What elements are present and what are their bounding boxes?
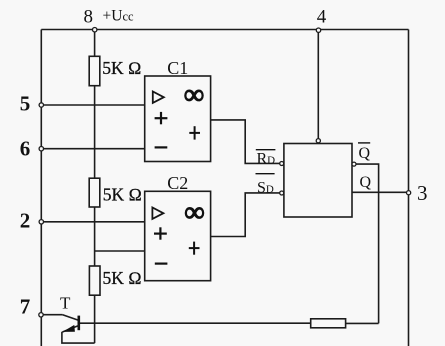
inversion bubble Rd input (280, 162, 284, 166)
node pin 8 terminal (93, 28, 97, 32)
wire R4 to Qbar vertical (346, 322, 379, 324)
svg-text:5K Ω: 5K Ω (103, 268, 142, 288)
svg-text:2: 2 (20, 208, 31, 232)
resistor R4 body (311, 319, 346, 328)
svg-text:+Ucc: +Ucc (103, 8, 134, 25)
C2 triangle symbol (152, 208, 163, 219)
svg-text:8: 8 (84, 6, 94, 27)
svg-text:Q: Q (360, 174, 372, 191)
inversion bubble on flip-flop top (316, 139, 320, 143)
op-amp comparator C1 box (145, 76, 211, 162)
C2 inner plus sign (189, 242, 200, 255)
node pin 5 terminal (39, 103, 43, 107)
C1 inner plus sign (189, 126, 200, 139)
flip-flop U1 box (284, 144, 352, 218)
output Qbar bubble (352, 162, 356, 166)
svg-text:5: 5 (20, 91, 31, 115)
wire Qbar to feedback (356, 164, 379, 323)
C2 minus input sign (155, 263, 168, 265)
svg-text:3: 3 (417, 181, 428, 205)
svg-text:7: 7 (20, 295, 31, 319)
C2 plus input sign (154, 227, 167, 239)
svg-text:4: 4 (317, 7, 327, 28)
C1 minus input sign (155, 146, 168, 148)
node pin 2 terminal (39, 220, 43, 224)
transistor T emitter arrow (63, 325, 75, 332)
node pin 3 terminal (407, 191, 411, 195)
wire chain R2 to R3 (94, 207, 96, 266)
wire left frame (40, 30, 42, 346)
wire right frame (408, 30, 410, 346)
wire pin5 to C1 plus input (44, 104, 145, 106)
svg-text:T: T (60, 294, 71, 313)
transistor T collector diagonal (63, 315, 79, 321)
resistor R3 body (89, 266, 100, 295)
wire pin4 to flip-flop (317, 32, 319, 138)
transistor T base bar (78, 316, 81, 331)
wire emitter to ground run (62, 332, 95, 343)
C1 plus input sign (155, 112, 168, 124)
svg-text:5K Ω: 5K Ω (102, 58, 141, 78)
wire pin2 to C2 plus input (44, 221, 145, 223)
wire top rail Vcc (41, 29, 408, 31)
op-amp comparator C2 box (145, 191, 211, 280)
wire pin7 to transistor collector (43, 314, 62, 316)
node pin 6 terminal (39, 147, 43, 151)
svg-text:5K Ω: 5K Ω (103, 185, 142, 205)
wire chain R1 to R2 (94, 86, 96, 179)
wire resistor chain upper (94, 32, 96, 56)
output Qbar label with overline (358, 143, 371, 162)
svg-text:∞: ∞ (185, 197, 205, 228)
wire pin6 to C1 minus input (44, 148, 145, 150)
C1 triangle symbol (153, 92, 164, 103)
resistor R1 body (89, 56, 100, 85)
input Rd label with overline (256, 150, 276, 168)
resistor R2 body (89, 178, 100, 207)
svg-text:Q: Q (359, 145, 371, 162)
input Sd label with overline (256, 174, 275, 197)
transistor T emitter diagonal (62, 326, 78, 333)
svg-text:C1: C1 (167, 58, 188, 78)
wire Q to pin 3 (352, 191, 406, 193)
node pin 4 terminal (316, 28, 320, 32)
svg-text:6: 6 (20, 136, 31, 160)
wire chain R3 to bottom (94, 295, 96, 343)
inversion bubble Sd input (280, 191, 284, 195)
svg-text:C2: C2 (167, 173, 188, 193)
svg-text:∞: ∞ (184, 80, 204, 111)
wire chain tap to C2 minus input (95, 250, 145, 252)
wire C2 output to Sd input (211, 193, 280, 237)
wire C1 output to Rd input (211, 120, 280, 163)
node pin 7 terminal (39, 313, 43, 317)
wire base feedback line (79, 322, 311, 324)
